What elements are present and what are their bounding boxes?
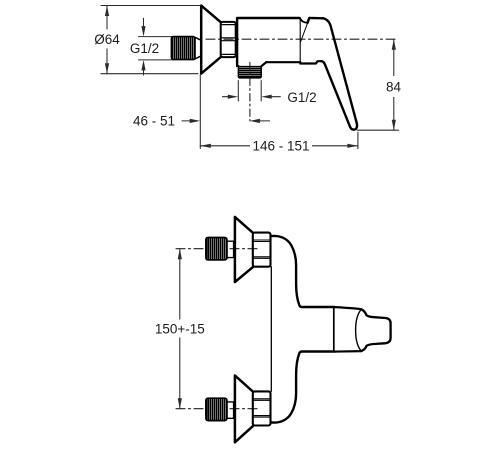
- wall inlet thread G1/2 (side view): [171, 37, 195, 60]
- cartridge cap line: [299, 18, 301, 61]
- outlet centerline (vertical dashed): [249, 63, 251, 122]
- bottom inlet thread (front view): [206, 398, 227, 420]
- shower outlet thread G1/2 (side view): [238, 67, 261, 78]
- body silhouette upper curve (front view): [271, 236, 334, 307]
- centerline (horizontal axis, side view): [206, 38, 397, 40]
- svg-text:Ø64: Ø64: [94, 32, 120, 47]
- top inlet collar cylinder: [227, 241, 234, 257]
- dimension 150+-15: [179, 249, 181, 409]
- dimension G1/2 (outlet): [223, 81, 281, 102]
- dimension 84: [357, 39, 399, 130]
- handle hump (side view): [308, 18, 324, 23]
- bottom inlet centerline: [176, 408, 259, 410]
- svg-text:G1/2: G1/2: [130, 41, 159, 56]
- handle cone top and bottom edges: [334, 307, 361, 352]
- body silhouette lower curve (front view): [271, 352, 334, 423]
- svg-text:150+-15: 150+-15: [155, 321, 205, 336]
- svg-text:146 - 151: 146 - 151: [252, 139, 309, 154]
- dimension 46 - 51: [182, 75, 270, 149]
- bottom hex nut (front view): [253, 391, 271, 425]
- handle joint line: [333, 308, 335, 352]
- lever (side view): outer edge, rounded tip, inner edge: [322, 18, 358, 129]
- handle cone base arc: [356, 309, 362, 351]
- outlet-to-body slant: [261, 62, 266, 66]
- neck between thread and escutcheon (side view): [195, 37, 201, 59]
- handle knob: [361, 309, 390, 351]
- bottom inlet collar cylinder: [227, 402, 234, 418]
- top hex nut (front view): [253, 233, 271, 267]
- body bottom edge with step: [266, 61, 322, 63]
- body left face line: [270, 267, 272, 392]
- svg-text:G1/2: G1/2: [287, 90, 316, 105]
- dimension Ø64: [101, 6, 201, 74]
- svg-text:84: 84: [386, 80, 402, 95]
- handle hidden edge (thin diagonal): [301, 23, 308, 42]
- escutcheon bell (side view): [201, 6, 221, 74]
- hex nut (side view): [221, 22, 236, 57]
- top escutcheon bell (front view): [235, 217, 253, 282]
- svg-text:46 - 51: 46 - 51: [133, 114, 175, 129]
- top inlet thread (front view): [206, 238, 227, 260]
- bottom-left corner to outlet: [237, 65, 238, 67]
- dimension 146 - 151: [200, 132, 358, 148]
- cap dip to handle base: [300, 18, 308, 23]
- valve body (side view): [237, 18, 300, 66]
- top inlet centerline: [176, 248, 259, 250]
- dimension G1/2 (wall thread): [139, 18, 172, 75]
- bottom escutcheon bell (front view): [235, 376, 253, 443]
